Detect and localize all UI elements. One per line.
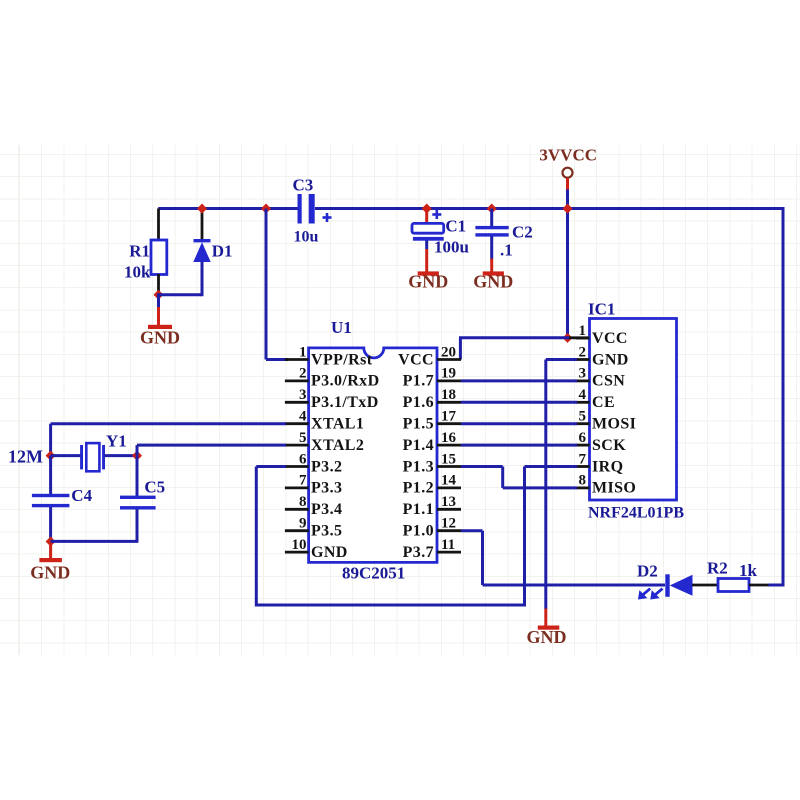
svg-text:P1.7: P1.7 — [403, 373, 434, 390]
svg-text:GND: GND — [408, 272, 448, 292]
svg-text:.1: .1 — [500, 241, 513, 260]
svg-text:9: 9 — [299, 516, 307, 532]
svg-text:2: 2 — [579, 344, 587, 360]
svg-text:MISO: MISO — [592, 480, 636, 497]
svg-text:4: 4 — [579, 387, 587, 403]
svg-text:10k: 10k — [124, 263, 151, 282]
svg-text:P1.4: P1.4 — [403, 437, 434, 454]
svg-text:P3.7: P3.7 — [403, 544, 434, 561]
svg-text:1k: 1k — [739, 561, 758, 580]
svg-text:14: 14 — [441, 473, 457, 489]
svg-text:6: 6 — [299, 451, 307, 467]
svg-text:P1.1: P1.1 — [403, 501, 434, 518]
svg-text:3VVCC: 3VVCC — [539, 146, 597, 165]
svg-text:P3.1/TxD: P3.1/TxD — [311, 394, 379, 411]
svg-text:IC1: IC1 — [588, 299, 615, 318]
svg-text:C4: C4 — [71, 486, 92, 505]
svg-text:MOSI: MOSI — [592, 416, 636, 433]
svg-text:C2: C2 — [512, 223, 533, 242]
svg-text:19: 19 — [441, 366, 456, 382]
svg-text:1: 1 — [579, 323, 587, 339]
svg-text:4: 4 — [299, 409, 307, 425]
svg-text:C5: C5 — [144, 478, 165, 497]
svg-text:6: 6 — [579, 430, 587, 446]
svg-text:D2: D2 — [637, 562, 658, 581]
svg-text:GND: GND — [140, 328, 180, 348]
svg-text:XTAL2: XTAL2 — [311, 437, 364, 454]
svg-text:P1.2: P1.2 — [403, 480, 434, 497]
svg-text:10: 10 — [292, 537, 307, 553]
svg-text:2: 2 — [299, 366, 307, 382]
svg-text:P3.5: P3.5 — [311, 523, 342, 540]
svg-text:SCK: SCK — [592, 437, 626, 454]
svg-text:P3.4: P3.4 — [311, 501, 342, 518]
svg-text:P1.3: P1.3 — [403, 458, 434, 475]
svg-text:3: 3 — [299, 387, 307, 403]
svg-text:89C2051: 89C2051 — [342, 564, 405, 583]
svg-text:5: 5 — [579, 409, 587, 425]
svg-text:C3: C3 — [293, 176, 314, 195]
svg-text:P1.6: P1.6 — [403, 394, 434, 411]
svg-text:XTAL1: XTAL1 — [311, 416, 364, 433]
svg-text:3: 3 — [579, 366, 587, 382]
svg-text:7: 7 — [299, 473, 307, 489]
svg-text:P3.2: P3.2 — [311, 458, 342, 475]
svg-text:VCC: VCC — [592, 330, 628, 347]
svg-text:CSN: CSN — [592, 373, 625, 390]
svg-text:GND: GND — [30, 563, 70, 583]
svg-text:12M: 12M — [8, 447, 43, 467]
svg-text:13: 13 — [441, 494, 456, 510]
svg-text:100u: 100u — [434, 238, 469, 257]
svg-text:16: 16 — [441, 430, 457, 446]
svg-text:D1: D1 — [212, 242, 233, 261]
svg-text:11: 11 — [441, 537, 455, 553]
svg-text:U1: U1 — [331, 318, 352, 337]
svg-text:17: 17 — [441, 409, 457, 425]
svg-text:NRF24L01PB: NRF24L01PB — [588, 505, 684, 522]
svg-text:R1: R1 — [129, 242, 150, 261]
svg-text:R2: R2 — [707, 559, 728, 578]
svg-text:VPP/Rst: VPP/Rst — [311, 351, 373, 368]
svg-text:GND: GND — [311, 544, 348, 561]
svg-text:Y1: Y1 — [106, 432, 127, 451]
svg-text:P3.0/RxD: P3.0/RxD — [311, 373, 380, 390]
svg-text:GND: GND — [527, 627, 567, 647]
svg-text:8: 8 — [579, 473, 587, 489]
svg-text:IRQ: IRQ — [592, 458, 623, 475]
svg-text:5: 5 — [299, 430, 307, 446]
svg-text:8: 8 — [299, 494, 307, 510]
svg-text:7: 7 — [579, 451, 587, 467]
svg-text:12: 12 — [441, 516, 456, 532]
svg-text:C1: C1 — [445, 217, 466, 236]
svg-text:15: 15 — [441, 451, 456, 467]
svg-text:18: 18 — [441, 387, 456, 403]
svg-text:CE: CE — [592, 394, 615, 411]
svg-text:1: 1 — [299, 344, 307, 360]
svg-text:GND: GND — [473, 272, 513, 292]
svg-text:P3.3: P3.3 — [311, 480, 342, 497]
svg-text:GND: GND — [592, 351, 629, 368]
svg-text:20: 20 — [441, 344, 456, 360]
svg-text:P1.5: P1.5 — [403, 416, 434, 433]
svg-text:10u: 10u — [294, 229, 319, 246]
svg-text:P1.0: P1.0 — [403, 523, 434, 540]
svg-text:VCC: VCC — [398, 351, 434, 368]
